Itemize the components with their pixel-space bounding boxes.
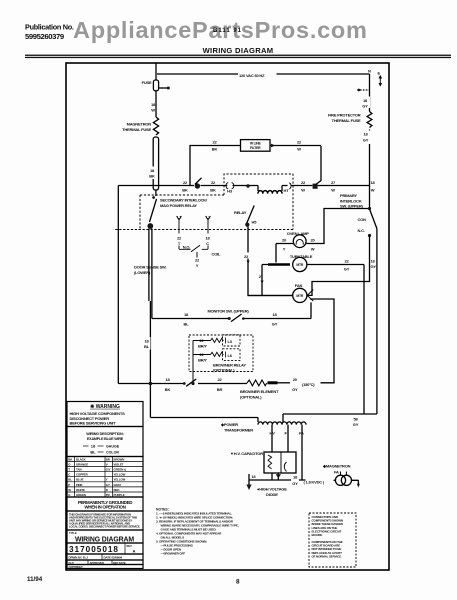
svg-text:FA: FA — [299, 430, 304, 435]
svg-text:◆MAGNETRON: ◆MAGNETRON — [322, 464, 351, 469]
svg-text:120 VAC 60 HZ: 120 VAC 60 HZ — [239, 73, 265, 78]
svg-text:RED: RED — [114, 488, 120, 492]
svg-text:(150°C): (150°C) — [302, 382, 315, 387]
svg-text:HT: HT — [284, 188, 290, 193]
svg-text:THERMAL FUSE: THERMAL FUSE — [332, 118, 361, 123]
svg-text:SECONDARY INTERLOCK/: SECONDARY INTERLOCK/ — [160, 198, 208, 203]
svg-text:MAGNETRON: MAGNETRON — [127, 122, 152, 127]
svg-text:BL: BL — [184, 321, 190, 326]
svg-text:( 1.8 KVDC ): ( 1.8 KVDC ) — [304, 480, 325, 485]
svg-text:VIOLET: VIOLET — [114, 463, 124, 467]
svg-text:DATE 05/09/94: DATE 05/09/94 — [104, 556, 123, 560]
svg-text:317005018: 317005018 — [69, 545, 119, 554]
svg-text:PURPLE: PURPLE — [114, 493, 125, 497]
svg-text:BROWNER ELEMENT: BROWNER ELEMENT — [240, 389, 279, 394]
svg-text:FUSE: FUSE — [142, 80, 152, 85]
svg-text:G/Y: G/Y — [106, 468, 111, 472]
svg-text:DRWN BY. ELJ: DRWN BY. ELJ — [69, 556, 89, 560]
svg-text:PRIMARY: PRIMARY — [340, 193, 357, 198]
svg-text:8: 8 — [236, 579, 240, 586]
svg-text:5995260379: 5995260379 — [25, 32, 64, 41]
svg-text:W: W — [297, 147, 301, 152]
svg-text:WHEN IN OPERATION: WHEN IN OPERATION — [84, 504, 125, 509]
svg-text:OVEN LAMP: OVEN LAMP — [287, 231, 310, 236]
svg-text:FLD: FLD — [69, 561, 74, 565]
svg-text:WIRING DESCRIPTION:: WIRING DESCRIPTION: — [86, 432, 123, 436]
svg-text:BR/Y: BR/Y — [198, 357, 207, 362]
svg-text:MTR: MTR — [296, 294, 303, 298]
svg-text:BK: BK — [165, 387, 171, 392]
svg-text:MTR: MTR — [296, 263, 303, 267]
svg-text:W LINE: W LINE — [250, 141, 262, 145]
svg-text:B111 91: B111 91 — [213, 28, 242, 34]
svg-text:GY: GY — [362, 104, 368, 109]
svg-text:BROWN: BROWN — [114, 457, 125, 461]
svg-text:COPYRIGHT: COPYRIGHT — [69, 565, 84, 569]
svg-text:(LOWER): (LOWER) — [134, 270, 151, 275]
svg-text:●HIGH VOLTAGE: ●HIGH VOLTAGE — [257, 487, 287, 492]
svg-text:Publication No.: Publication No. — [25, 23, 74, 32]
svg-text:BOARD.: BOARD. — [312, 533, 323, 537]
svg-text:DIODE: DIODE — [266, 492, 278, 497]
svg-text:BEFORE SERVICING UNIT: BEFORE SERVICING UNIT — [70, 421, 117, 426]
svg-text:P: P — [68, 483, 70, 487]
svg-text:FIRE PROTECTOR: FIRE PROTECTOR — [328, 113, 361, 118]
svg-text:GREEN &: GREEN & — [114, 468, 126, 472]
svg-text:W: W — [371, 187, 375, 192]
svg-text:LOCAL CODES. DISCONNECT POWER: LOCAL CODES. DISCONNECT POWER BEFORE SER… — [69, 524, 141, 528]
svg-text:(OPTIONAL): (OPTIONAL) — [213, 368, 235, 373]
svg-text:W: W — [311, 246, 315, 251]
svg-text:BK: BK — [212, 147, 218, 152]
svg-text:BL: BL — [144, 344, 150, 349]
svg-text:18: 18 — [91, 443, 96, 448]
svg-text:TAN: TAN — [76, 468, 81, 472]
svg-text:PINK: PINK — [76, 483, 84, 487]
svg-text:APPROVED: APPROVED — [90, 561, 105, 565]
svg-text:GREEN: GREEN — [76, 493, 86, 497]
svg-text:C: C — [206, 241, 209, 246]
svg-text:THERMAL FUSE: THERMAL FUSE — [122, 127, 151, 132]
svg-text:BK: BK — [210, 187, 216, 192]
svg-text:REV: REV — [127, 544, 133, 548]
svg-text:GY: GY — [272, 321, 278, 326]
svg-text:GY: GY — [363, 138, 369, 143]
svg-text:N.O.: N.O. — [183, 245, 191, 250]
svg-text:EXAMPLE BLUE WIRE: EXAMPLE BLUE WIRE — [87, 437, 124, 441]
svg-text:HV: HV — [270, 430, 276, 435]
svg-text:BR: BR — [217, 387, 223, 392]
svg-text:YELLOW: YELLOW — [114, 473, 126, 477]
svg-text:GY: GY — [371, 264, 377, 269]
svg-text:MONITOR SW. (UPPER): MONITOR SW. (UPPER) — [208, 309, 250, 314]
svg-text:ORANGE: ORANGE — [76, 463, 88, 467]
svg-text:GAUGE: GAUGE — [106, 444, 120, 448]
svg-text:BLACK: BLACK — [76, 457, 87, 461]
svg-text:WIRING DIAGRAM: WIRING DIAGRAM — [75, 536, 134, 543]
svg-text:CON: CON — [358, 217, 367, 222]
svg-text:GY: GY — [292, 481, 298, 486]
svg-text:OF NORMAL SERVICE.: OF NORMAL SERVICE. — [312, 554, 343, 558]
svg-text:BL: BL — [90, 449, 96, 454]
svg-text:GRAY: GRAY — [114, 483, 122, 487]
svg-text:▼H.V. CAPACITOR: ▼H.V. CAPACITOR — [230, 451, 263, 456]
svg-text:MAG POWER RELAY: MAG POWER RELAY — [160, 203, 197, 208]
svg-text:REF DATE: REF DATE — [113, 561, 126, 565]
svg-text:BK: BK — [182, 187, 188, 192]
svg-text:COPPER: COPPER — [76, 473, 89, 477]
svg-text:FILTER: FILTER — [250, 146, 261, 150]
svg-text:N: N — [368, 69, 371, 74]
svg-text:W: W — [331, 187, 335, 192]
svg-text:Y: Y — [106, 478, 108, 482]
svg-text:SW. (UPPER): SW. (UPPER) — [340, 204, 364, 209]
svg-text:INTERLOCK: INTERLOCK — [340, 198, 362, 203]
svg-text:N.C.: N.C. — [358, 228, 365, 233]
svg-text:FAN: FAN — [295, 283, 303, 288]
svg-text:W: W — [151, 108, 155, 113]
svg-text:TITLE: TITLE — [69, 531, 77, 535]
svg-text:—BROWNER OFF: —BROWNER OFF — [161, 552, 186, 556]
svg-text:WHITE: WHITE — [76, 488, 85, 492]
svg-text:GY: GY — [106, 483, 110, 487]
svg-text:WIRING DIAGRAM: WIRING DIAGRAM — [203, 46, 274, 55]
svg-text:V: V — [106, 463, 108, 467]
svg-text:YELLOW: YELLOW — [114, 478, 126, 482]
svg-text:DOOR SENSE SW.: DOOR SENSE SW. — [134, 265, 166, 270]
svg-text:TURNTABLE: TURNTABLE — [290, 254, 313, 259]
svg-text:(OPTIONAL): (OPTIONAL) — [240, 395, 262, 400]
svg-text:11/94: 11/94 — [27, 576, 43, 583]
svg-text:RELAY: RELAY — [234, 210, 247, 215]
svg-text:A: A — [133, 549, 136, 554]
svg-text:COIL: COIL — [212, 252, 222, 257]
svg-text:GY: GY — [344, 266, 350, 271]
svg-text:BL: BL — [68, 478, 72, 482]
svg-text:GY: GY — [353, 422, 359, 427]
svg-text:COLOR: COLOR — [106, 450, 119, 454]
svg-text:TRANSFORMER: TRANSFORMER — [224, 427, 253, 432]
svg-text:BK: BK — [149, 174, 155, 179]
svg-text:◆POWER: ◆POWER — [220, 422, 238, 427]
svg-text:W: W — [301, 187, 305, 192]
svg-text:FA: FA — [334, 470, 339, 475]
svg-text:BR/Y: BR/Y — [198, 343, 207, 348]
svg-text:GY: GY — [292, 387, 298, 392]
svg-text:❋ WARNING: ❋ WARNING — [90, 404, 120, 410]
svg-text:BLUE: BLUE — [76, 478, 84, 482]
svg-text:W: W — [68, 488, 71, 492]
